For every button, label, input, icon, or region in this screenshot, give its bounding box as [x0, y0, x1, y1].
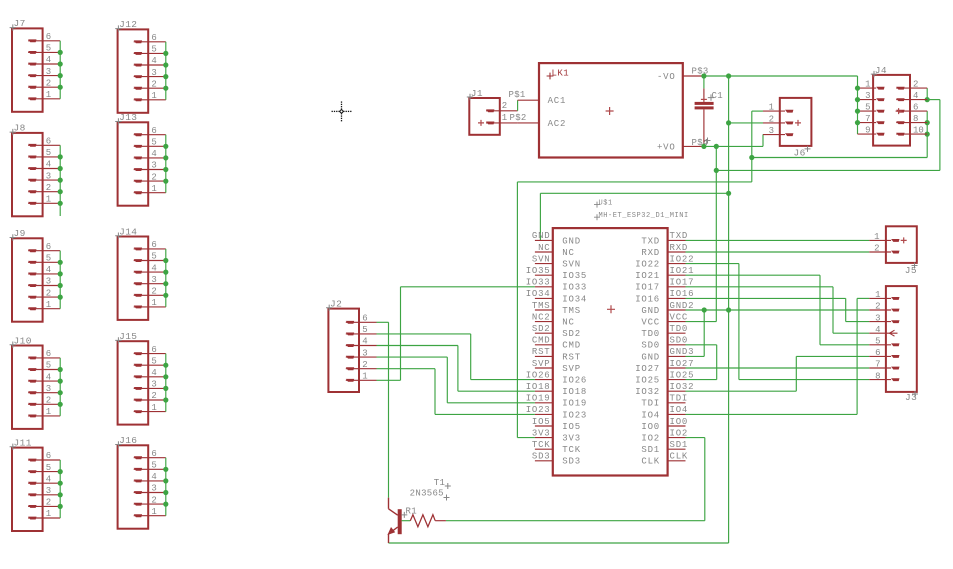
- svg-text:RST: RST: [532, 347, 551, 357]
- svg-text:P$1: P$1: [509, 90, 526, 100]
- svg-text:6: 6: [362, 314, 367, 324]
- wire IO4 to J3 pin1: [686, 298, 870, 414]
- svg-text:5: 5: [46, 361, 51, 371]
- svg-text:IO34: IO34: [562, 294, 587, 304]
- svg-text:SVP: SVP: [532, 359, 551, 369]
- svg-text:6: 6: [46, 137, 51, 147]
- label 2N3565: [410, 488, 450, 500]
- svg-text:3: 3: [151, 380, 156, 390]
- svg-text:IO19: IO19: [562, 399, 587, 409]
- svg-text:IO2: IO2: [641, 434, 660, 444]
- U1 right pin CLK: [641, 452, 688, 467]
- svg-text:5: 5: [875, 337, 880, 347]
- connector J9: [10, 228, 63, 322]
- svg-text:J6: J6: [794, 147, 806, 158]
- svg-text:RST: RST: [562, 352, 581, 362]
- svg-text:4: 4: [151, 263, 156, 273]
- svg-text:NC: NC: [562, 248, 574, 258]
- svg-text:SD2: SD2: [532, 324, 551, 334]
- svg-text:2: 2: [46, 288, 51, 298]
- svg-text:IO17: IO17: [635, 283, 660, 293]
- svg-text:J1: J1: [471, 88, 483, 99]
- svg-text:7: 7: [865, 114, 870, 124]
- junction +VO C1: [701, 144, 706, 149]
- junction -VO GND rail: [726, 73, 731, 78]
- svg-text:IO2: IO2: [670, 428, 689, 438]
- svg-text:LK1: LK1: [552, 68, 570, 78]
- svg-text:GND: GND: [641, 352, 660, 362]
- svg-text:2N3565: 2N3565: [410, 488, 444, 498]
- svg-text:5: 5: [151, 252, 156, 262]
- U1 right pin IO17: [635, 278, 694, 293]
- svg-text:1: 1: [46, 300, 51, 310]
- U1 left pin 3V3: [532, 428, 581, 443]
- svg-text:3V3: 3V3: [562, 434, 581, 444]
- svg-text:2: 2: [46, 498, 51, 508]
- wire J6 pin2 GND: [729, 122, 763, 124]
- svg-text:5: 5: [151, 45, 156, 55]
- U1 right pin TXD: [641, 231, 688, 246]
- svg-text:TD0: TD0: [670, 324, 689, 334]
- svg-text:3: 3: [46, 67, 51, 77]
- svg-text:9: 9: [865, 125, 870, 135]
- svg-text:IO25: IO25: [670, 370, 695, 380]
- svg-text:NC: NC: [538, 243, 550, 253]
- svg-text:6: 6: [151, 345, 156, 355]
- svg-text:GND: GND: [532, 231, 551, 241]
- svg-text:IO32: IO32: [635, 387, 660, 397]
- svg-text:SD1: SD1: [670, 440, 689, 450]
- U1 left pin SD3: [532, 452, 581, 467]
- svg-text:4: 4: [875, 325, 880, 335]
- svg-text:IO0: IO0: [641, 422, 660, 432]
- svg-text:4: 4: [46, 474, 51, 484]
- U1 left pin CMD: [532, 336, 581, 351]
- svg-text:SD0: SD0: [641, 341, 660, 351]
- svg-text:3: 3: [46, 277, 51, 287]
- svg-text:IO25: IO25: [635, 376, 660, 386]
- svg-text:SD1: SD1: [641, 445, 660, 455]
- junction J4 pin5: [855, 109, 860, 114]
- svg-text:6: 6: [46, 32, 51, 42]
- svg-text:TMS: TMS: [562, 306, 581, 316]
- svg-text:3V3: 3V3: [532, 428, 551, 438]
- svg-text:8: 8: [875, 371, 880, 381]
- svg-text:J4: J4: [875, 65, 887, 76]
- svg-text:J3: J3: [905, 392, 917, 403]
- U1 left pin IO26: [526, 370, 587, 385]
- svg-text:5: 5: [151, 356, 156, 366]
- junction GND branch: [726, 191, 731, 196]
- wire J2 pin6 to T1 collector: [377, 322, 389, 497]
- origin cross J5: [901, 237, 907, 243]
- net label P$4: [692, 138, 711, 148]
- wire IO16 to J3 pin3: [686, 298, 870, 321]
- svg-text:3: 3: [151, 68, 156, 78]
- svg-text:6: 6: [875, 348, 880, 358]
- svg-text:IO5: IO5: [562, 422, 581, 432]
- wire -VO rail: [704, 76, 858, 134]
- svg-text:VCC: VCC: [641, 318, 660, 328]
- U1 right pin GND: [641, 301, 694, 316]
- svg-text:5: 5: [151, 138, 156, 148]
- connector J12: [115, 19, 168, 113]
- svg-text:TCK: TCK: [532, 440, 551, 450]
- svg-text:1: 1: [769, 103, 774, 113]
- svg-text:10: 10: [913, 125, 924, 135]
- origin cross J6: [795, 120, 801, 126]
- svg-text:SVN: SVN: [562, 260, 581, 270]
- wire IO2 to R1: [446, 438, 705, 521]
- U1 left pin IO23: [526, 405, 587, 420]
- svg-text:C1: C1: [712, 91, 723, 101]
- junction 3V3 J6: [749, 155, 754, 160]
- U1 left pin TMS: [532, 301, 581, 316]
- svg-text:TCK: TCK: [562, 445, 581, 455]
- connector J2: [326, 298, 377, 392]
- svg-text:J14: J14: [119, 226, 137, 237]
- U1 right pin IO4: [641, 405, 688, 420]
- U1 right pin IO22: [635, 254, 694, 269]
- wire IO17 to J3 pin4: [686, 287, 870, 333]
- svg-text:6: 6: [151, 126, 156, 136]
- wire P$1 jog: [517, 100, 519, 111]
- U1 left pin TCK: [532, 440, 581, 455]
- IC U1 MH-ET_ESP32_D1_MINI: [553, 200, 689, 476]
- svg-text:4: 4: [151, 368, 156, 378]
- svg-text:4: 4: [46, 160, 51, 170]
- U1 right pin IO25: [635, 370, 694, 385]
- connector J16: [115, 435, 168, 529]
- svg-text:3: 3: [362, 348, 367, 358]
- svg-text:IO19: IO19: [526, 394, 551, 404]
- U1 left pin NC: [532, 312, 575, 327]
- svg-text:3: 3: [46, 486, 51, 496]
- svg-text:6: 6: [913, 102, 918, 112]
- svg-text:VCC: VCC: [670, 312, 689, 322]
- connector J5: [869, 226, 917, 275]
- svg-text:IO26: IO26: [526, 370, 551, 380]
- U1 left pin SVN: [532, 254, 581, 269]
- wire J2 pin3 to IO19: [377, 357, 535, 403]
- connector J14: [115, 226, 168, 320]
- svg-text:IO4: IO4: [641, 410, 660, 420]
- svg-text:IO4: IO4: [670, 405, 689, 415]
- label R1: [401, 507, 417, 518]
- svg-text:TXD: TXD: [641, 236, 660, 246]
- junction J4 pin4: [925, 97, 930, 102]
- svg-text:1: 1: [46, 509, 51, 519]
- svg-text:CLK: CLK: [670, 452, 689, 462]
- svg-text:1: 1: [151, 184, 156, 194]
- wire J2 pin4 to IO18: [377, 346, 535, 392]
- power module LK1: [518, 63, 704, 157]
- svg-text:TMS: TMS: [532, 301, 551, 311]
- svg-text:GND: GND: [562, 236, 581, 246]
- svg-text:2: 2: [46, 183, 51, 193]
- U1 left pin IO19: [526, 394, 587, 409]
- wire J2 pin2 to IO23: [377, 369, 535, 415]
- svg-text:J11: J11: [14, 437, 32, 448]
- svg-text:IO27: IO27: [670, 359, 695, 369]
- transistor T1 2N3565: [387, 498, 401, 543]
- svg-text:IO21: IO21: [635, 271, 660, 281]
- U1 left pin SVP: [532, 359, 581, 374]
- svg-text:AC2: AC2: [548, 119, 567, 129]
- wire IO27 to J3 pin7: [686, 367, 870, 369]
- junction +VO VCC: [714, 144, 719, 149]
- svg-text:RXD: RXD: [641, 248, 660, 258]
- svg-text:IO22: IO22: [670, 254, 695, 264]
- svg-text:1: 1: [875, 290, 880, 300]
- svg-text:TDI: TDI: [641, 399, 660, 409]
- svg-text:IO35: IO35: [526, 266, 551, 276]
- U1 right pin GND: [641, 347, 694, 362]
- svg-text:1: 1: [46, 90, 51, 100]
- svg-text:2: 2: [46, 396, 51, 406]
- connector J8: [10, 123, 63, 217]
- svg-text:2: 2: [875, 302, 880, 312]
- svg-text:1: 1: [362, 372, 367, 382]
- capacitor C1: [695, 88, 723, 146]
- origin cross LK1: [606, 107, 614, 115]
- svg-text:4: 4: [46, 372, 51, 382]
- junction GND J6 pin2: [726, 120, 731, 125]
- svg-text:2: 2: [151, 391, 156, 401]
- wire VCC to +VO: [686, 321, 717, 323]
- U1 left pin GND: [532, 231, 581, 246]
- svg-text:6: 6: [46, 451, 51, 461]
- svg-text:J8: J8: [14, 123, 26, 134]
- svg-text:IO34: IO34: [526, 289, 551, 299]
- wire RXD to J5 pin2: [686, 251, 870, 253]
- svg-text:5: 5: [865, 102, 870, 112]
- svg-text:-VO: -VO: [657, 72, 676, 82]
- U1 left pin IO35: [526, 266, 587, 281]
- cursor crosshair: [332, 101, 352, 121]
- svg-text:2: 2: [913, 79, 918, 89]
- svg-text:3: 3: [875, 313, 880, 323]
- svg-text:5: 5: [46, 148, 51, 158]
- origin cross U1: [607, 305, 615, 313]
- wire IO32 to J3 pin6: [686, 356, 870, 391]
- svg-text:7: 7: [875, 360, 880, 370]
- connector J4 2x5 header: [858, 65, 928, 146]
- svg-text:5: 5: [46, 44, 51, 54]
- polarity + C1: [701, 98, 707, 100]
- U1 right pin SD0: [641, 336, 688, 351]
- svg-text:2: 2: [151, 172, 156, 182]
- svg-text:1: 1: [502, 113, 507, 123]
- svg-text:P$2: P$2: [510, 113, 527, 123]
- svg-text:5: 5: [46, 254, 51, 264]
- svg-text:MH-ET_ESP32_D1_MINI: MH-ET_ESP32_D1_MINI: [599, 212, 689, 220]
- svg-text:J7: J7: [14, 18, 26, 29]
- svg-text:U$1: U$1: [599, 200, 613, 208]
- svg-text:2: 2: [874, 244, 879, 254]
- svg-text:1: 1: [151, 91, 156, 101]
- wire +VO rail: [702, 88, 940, 322]
- svg-text:R1: R1: [406, 507, 417, 517]
- junction J4 pin1: [855, 86, 860, 91]
- svg-text:1: 1: [46, 407, 51, 417]
- wire GND2 to J3 pin2: [686, 309, 870, 311]
- svg-text:3: 3: [865, 91, 870, 101]
- svg-text:IO33: IO33: [526, 278, 551, 288]
- svg-text:NC: NC: [562, 318, 574, 328]
- svg-text:GND: GND: [641, 306, 660, 316]
- svg-text:4: 4: [362, 337, 367, 347]
- svg-text:IO0: IO0: [670, 417, 689, 427]
- wire SD0 to IO25: [686, 345, 717, 380]
- svg-text:IO21: IO21: [670, 266, 695, 276]
- svg-text:CMD: CMD: [562, 341, 581, 351]
- svg-text:J10: J10: [14, 335, 32, 346]
- svg-text:IO18: IO18: [526, 382, 551, 392]
- U1 right pin SD1: [641, 440, 688, 455]
- svg-text:J13: J13: [119, 112, 137, 123]
- svg-text:IO32: IO32: [670, 382, 695, 392]
- svg-text:1: 1: [151, 298, 156, 308]
- wire IO21 to J3 pin5: [686, 275, 870, 345]
- svg-text:IO16: IO16: [670, 289, 695, 299]
- svg-text:IO23: IO23: [526, 405, 551, 415]
- svg-text:3: 3: [769, 126, 774, 136]
- svg-text:1: 1: [865, 79, 870, 89]
- svg-text:2: 2: [362, 360, 367, 370]
- junction GND2 rail: [726, 307, 731, 312]
- U1 left pin NC: [535, 243, 575, 258]
- svg-text:4: 4: [151, 56, 156, 66]
- svg-text:IO35: IO35: [562, 271, 587, 281]
- svg-text:5: 5: [46, 463, 51, 473]
- svg-text:J16: J16: [119, 435, 137, 446]
- svg-text:IO16: IO16: [635, 294, 660, 304]
- svg-text:4: 4: [151, 472, 156, 482]
- connector J15: [115, 331, 168, 425]
- svg-text:1: 1: [46, 195, 51, 205]
- svg-text:SD3: SD3: [532, 452, 551, 462]
- svg-text:GND2: GND2: [670, 301, 695, 311]
- label T1: [434, 478, 451, 489]
- svg-text:1: 1: [151, 403, 156, 413]
- svg-text:4: 4: [151, 149, 156, 159]
- U1 right pin IO0: [641, 417, 688, 432]
- U1 right pin IO21: [635, 266, 694, 281]
- svg-text:2: 2: [151, 287, 156, 297]
- svg-text:3: 3: [151, 161, 156, 171]
- svg-text:3: 3: [151, 275, 156, 285]
- wire GND vertical rail: [389, 76, 729, 543]
- junction -VO C1: [701, 73, 706, 78]
- svg-text:SVN: SVN: [532, 254, 551, 264]
- junction J4 pin10: [925, 132, 930, 137]
- svg-text:2: 2: [46, 78, 51, 88]
- svg-text:J9: J9: [14, 228, 26, 239]
- svg-text:1: 1: [874, 232, 879, 242]
- svg-text:6: 6: [46, 349, 51, 359]
- resistor R1: [402, 515, 446, 527]
- U1 right pin TD0: [641, 324, 688, 339]
- U1 right pin TDI: [641, 394, 688, 409]
- wire IO22 to J3 pin8: [686, 264, 870, 380]
- U1 left pin IO33: [526, 278, 587, 293]
- U1 left pin RST: [532, 347, 581, 362]
- svg-text:2: 2: [151, 79, 156, 89]
- svg-text:T1: T1: [434, 478, 445, 488]
- polarity + J1: [478, 120, 484, 126]
- U1 right pin IO2: [641, 428, 688, 443]
- svg-text:J2: J2: [330, 298, 342, 309]
- U1 right pin RXD: [641, 243, 688, 258]
- svg-text:IO5: IO5: [532, 417, 551, 427]
- svg-text:2: 2: [151, 495, 156, 505]
- U1 left pin SD2: [532, 324, 581, 339]
- wire GND3 up: [686, 310, 705, 356]
- svg-text:SD3: SD3: [562, 457, 581, 467]
- svg-text:4: 4: [913, 91, 918, 101]
- svg-text:IO23: IO23: [562, 410, 587, 420]
- svg-text:3: 3: [46, 384, 51, 394]
- U1 right pin VCC: [641, 312, 688, 327]
- svg-text:SVP: SVP: [562, 364, 581, 374]
- svg-text:IO22: IO22: [635, 260, 660, 270]
- origin cross J4: [896, 108, 902, 114]
- svg-text:CLK: CLK: [641, 457, 660, 467]
- svg-text:5: 5: [151, 461, 156, 471]
- U1 left pin IO18: [526, 382, 587, 397]
- svg-text:AC1: AC1: [548, 96, 567, 106]
- svg-text:TD0: TD0: [641, 329, 660, 339]
- svg-text:6: 6: [151, 240, 156, 250]
- svg-text:+VO: +VO: [657, 142, 676, 152]
- wire TXD to J5 pin1: [686, 239, 870, 241]
- svg-text:J12: J12: [119, 19, 137, 30]
- junction J4 pin7: [855, 120, 860, 125]
- svg-text:4: 4: [46, 265, 51, 275]
- connector J11: [10, 437, 63, 531]
- connector J10: [10, 335, 63, 429]
- svg-text:3: 3: [46, 171, 51, 181]
- connector J7: [10, 18, 63, 112]
- U1 left pin IO5: [532, 417, 581, 432]
- wire J2 pin5 to IO26: [377, 334, 535, 380]
- svg-text:6: 6: [151, 449, 156, 459]
- svg-text:IO27: IO27: [635, 364, 660, 374]
- svg-text:8: 8: [913, 114, 918, 124]
- svg-text:TXD: TXD: [670, 231, 689, 241]
- junction +VO J4: [714, 168, 719, 173]
- wire 3V3 rail: [517, 111, 927, 438]
- svg-text:3: 3: [151, 484, 156, 494]
- svg-text:6: 6: [46, 242, 51, 252]
- svg-text:SD0: SD0: [670, 336, 689, 346]
- svg-text:2: 2: [502, 101, 507, 111]
- junction J4 pin3: [855, 97, 860, 102]
- svg-text:GND3: GND3: [670, 347, 695, 357]
- U1 right pin IO16: [635, 289, 694, 304]
- svg-text:IO18: IO18: [562, 387, 587, 397]
- svg-text:5: 5: [362, 325, 367, 335]
- connector J13: [115, 112, 168, 206]
- connector J6: [763, 98, 811, 158]
- svg-text:IO33: IO33: [562, 283, 587, 293]
- U1 right pin IO27: [635, 359, 694, 374]
- svg-text:TDI: TDI: [670, 394, 689, 404]
- U1 right pin IO32: [635, 382, 694, 397]
- svg-text:1: 1: [151, 507, 156, 517]
- U1 left pin IO34: [526, 289, 587, 304]
